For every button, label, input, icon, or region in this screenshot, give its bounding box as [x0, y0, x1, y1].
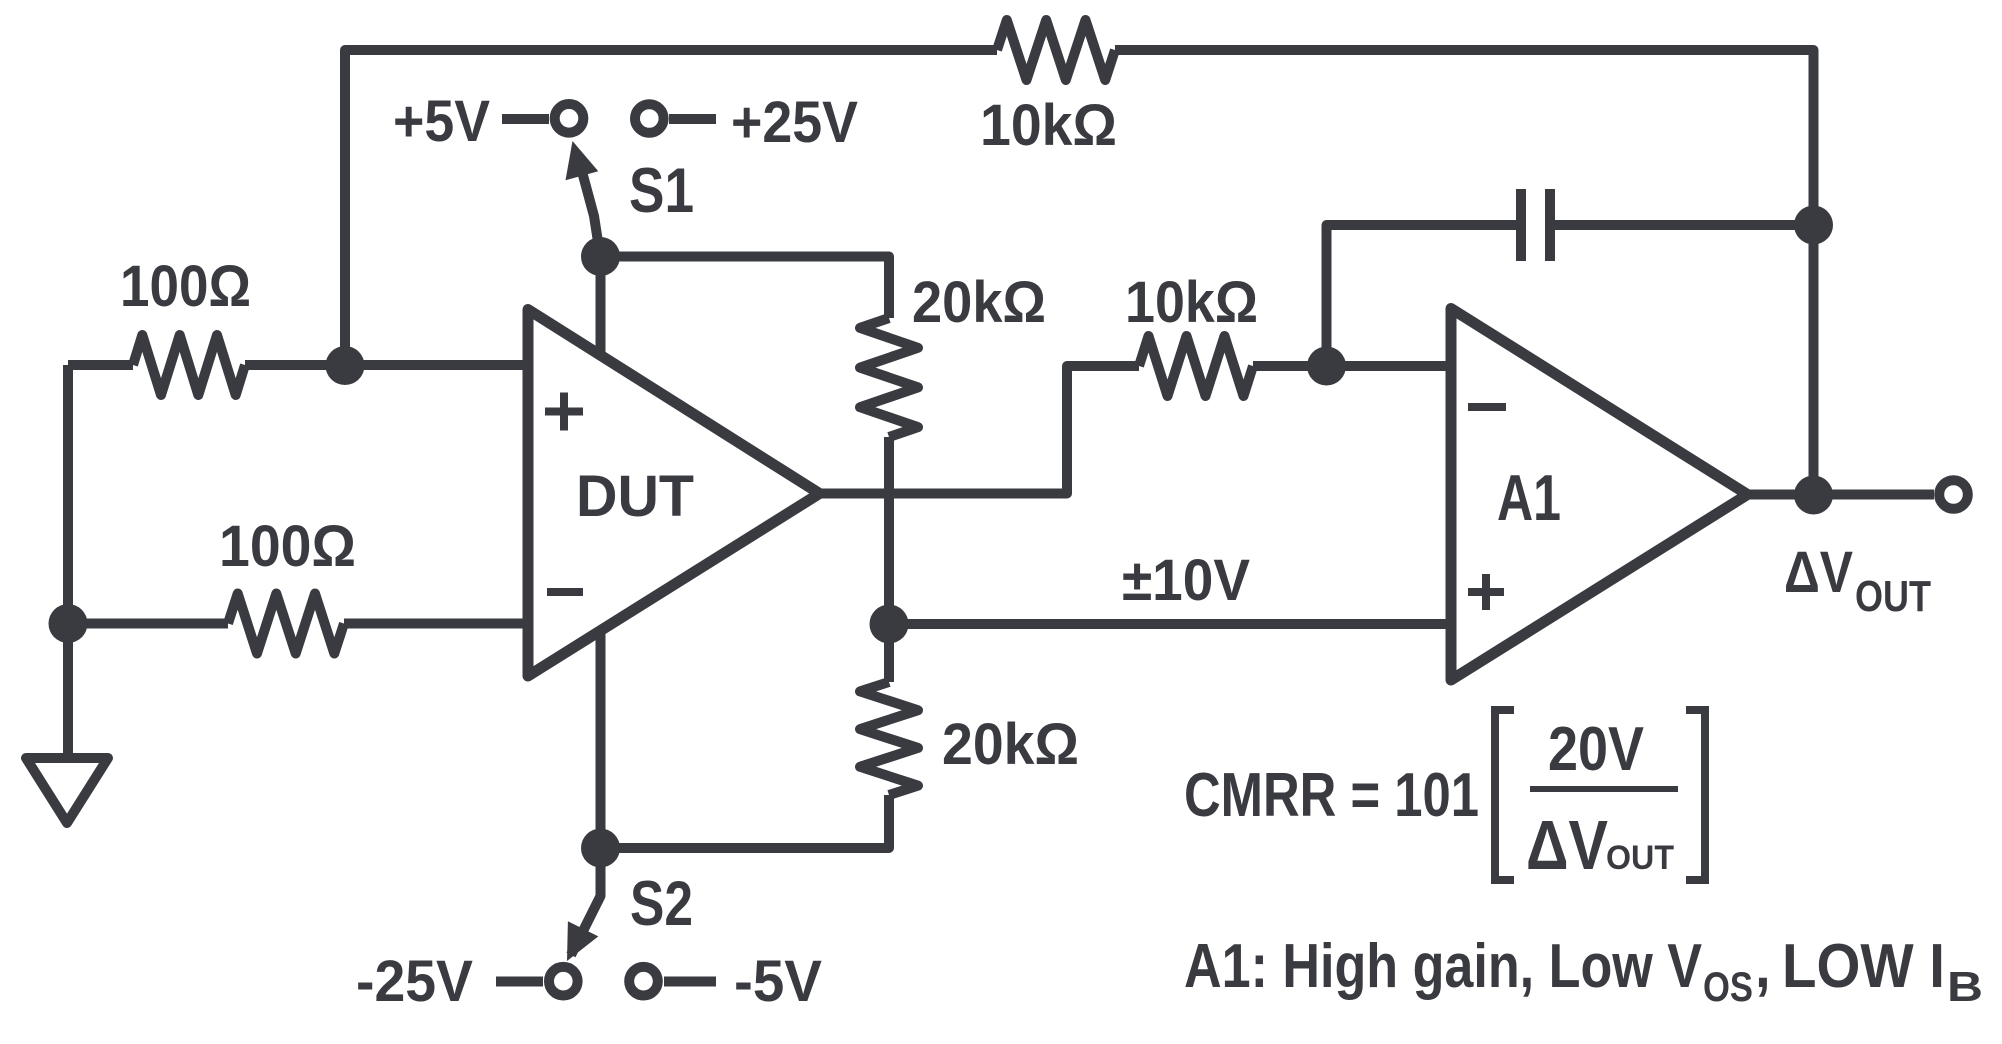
wire capacitor branch left	[1327, 225, 1517, 366]
wire -input to DUT	[344, 619, 528, 629]
svg-text:ΔV: ΔV	[1784, 540, 1853, 605]
wire stub -5V	[664, 977, 716, 987]
svg-text:ΔV: ΔV	[1526, 806, 1608, 884]
wire A1 output	[1748, 490, 1935, 500]
svg-text:10kΩ: 10kΩ	[980, 93, 1117, 158]
resistor R4 10k mid	[1139, 336, 1253, 396]
resistor R1 100 ohm upper	[133, 335, 245, 395]
wire DUT output with jog up	[820, 366, 1140, 494]
svg-text:+5V: +5V	[393, 89, 490, 154]
terminal output circle	[1939, 480, 1968, 509]
svg-text:±10V: ±10V	[1122, 548, 1250, 613]
switch S1 arrowhead	[566, 141, 599, 180]
resistor R3 10k top	[997, 20, 1115, 80]
wire +input: left stub	[68, 360, 133, 370]
ground	[26, 758, 108, 823]
node junction dot output	[1794, 476, 1833, 515]
wire stub +5V	[502, 114, 549, 124]
svg-text:-25V: -25V	[356, 949, 473, 1014]
svg-text:100Ω: 100Ω	[219, 514, 356, 579]
wire 20k lower to S2 node	[601, 795, 890, 848]
svg-text:-5V: -5V	[734, 949, 822, 1014]
wire left vertical to ground	[63, 365, 73, 758]
svg-text:A1: High gain, Low V: A1: High gain, Low V	[1184, 932, 1702, 1001]
resistor R5 20k upper	[860, 318, 918, 437]
svg-text:20kΩ: 20kΩ	[942, 712, 1079, 777]
op-amp DUT	[528, 310, 820, 677]
svg-text:DUT: DUT	[576, 464, 694, 529]
wire 20k upper to mid node	[884, 437, 894, 624]
wire DUT bottom supply stub to S2 node	[596, 628, 606, 848]
A1 plus sign	[1468, 588, 1504, 596]
wire stub -25V	[496, 977, 543, 987]
terminal +25V circle	[635, 104, 664, 133]
svg-text:OS: OS	[1703, 963, 1753, 1010]
formula fraction bar	[1530, 786, 1678, 792]
terminal +5V circle	[555, 104, 584, 133]
svg-text:S2: S2	[630, 869, 693, 939]
resistor R2 100 ohm lower	[228, 594, 344, 654]
svg-text:B: B	[1947, 963, 1983, 1010]
op-amp A1	[1451, 309, 1748, 681]
resistor R6 20k lower	[860, 682, 918, 795]
DUT minus sign	[547, 588, 583, 596]
svg-text:+25V: +25V	[731, 90, 858, 155]
switch S2 arrowhead	[567, 921, 598, 961]
capacitor C1 left plate	[1516, 189, 1526, 261]
A1 minus sign	[1468, 403, 1506, 411]
svg-text:100Ω: 100Ω	[120, 254, 251, 319]
svg-text:20V: 20V	[1548, 715, 1644, 784]
terminal -25V circle	[549, 967, 578, 996]
wire S1 node to 20k column	[601, 257, 890, 319]
node junction dot mid divider	[870, 605, 909, 644]
svg-text:, LOW I: , LOW I	[1755, 932, 1945, 1001]
wire +10V line to A1 non-inverting input	[889, 619, 1451, 629]
svg-text:10kΩ: 10kΩ	[1125, 270, 1258, 335]
svg-text:CMRR = 101: CMRR = 101	[1184, 761, 1479, 830]
switch S2 arm	[571, 846, 601, 955]
node junction dot S2	[581, 829, 620, 868]
svg-text:OUT: OUT	[1606, 839, 1674, 877]
wire 10k mid to A1 inverting input	[1253, 361, 1451, 371]
formula right bracket	[1686, 710, 1705, 880]
node junction dot A (+input)	[326, 346, 365, 385]
wire -input: from left node	[68, 619, 228, 629]
svg-text:A1: A1	[1497, 461, 1561, 534]
node junction dot S1	[581, 237, 620, 276]
svg-text:S1: S1	[629, 156, 694, 226]
capacitor C1 right plate	[1545, 189, 1555, 261]
wire top right to output column	[1115, 50, 1814, 495]
wire capacitor to output column	[1555, 220, 1814, 230]
node junction dot cap right	[1794, 206, 1833, 245]
wire mid node to lower 20k	[884, 624, 894, 682]
switch S1 arm	[577, 153, 601, 258]
svg-text:20kΩ: 20kΩ	[912, 270, 1046, 335]
DUT plus sign	[545, 408, 583, 416]
formula left bracket	[1495, 710, 1514, 880]
wire stub +25V	[669, 114, 716, 124]
svg-text:OUT: OUT	[1855, 572, 1931, 621]
wire +input to DUT	[245, 360, 528, 370]
wire DUT top supply stub	[596, 257, 606, 359]
node junction dot B (-input left)	[49, 604, 88, 643]
wire top loop from +input junction to top-right	[345, 50, 997, 365]
terminal -5V circle	[629, 967, 658, 996]
node junction dot 10k/cap	[1307, 347, 1346, 386]
